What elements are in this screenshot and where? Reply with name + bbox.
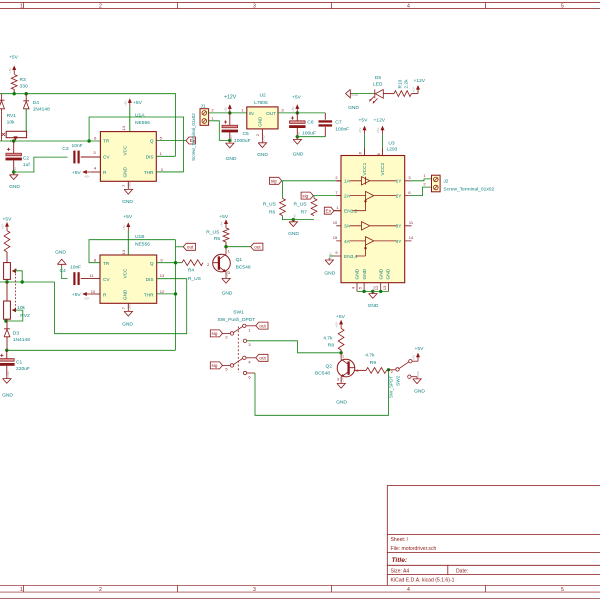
junction D3 C1 [5,349,8,352]
wire THR stub U1B [157,293,176,295]
svg-text:1000uF: 1000uF [234,138,251,144]
svg-text:Size: A4: Size: A4 [391,569,410,575]
power +12V input [223,104,231,113]
global label out U1B out [183,243,195,250]
svg-text:14: 14 [409,235,414,240]
svg-text:R9: R9 [370,360,377,366]
wire C2 to C3 [14,157,68,172]
svg-text:SW_SPDT: SW_SPDT [389,376,394,398]
label Q1 [236,257,243,263]
wire 1Y to J2 [410,179,432,181]
resistor R10 [394,91,412,97]
junction R6 GND [292,218,295,221]
svg-text:5: 5 [358,286,363,289]
label Screw_Terminal_01x02 J2 [443,186,494,192]
svg-text:+5V: +5V [291,106,295,111]
svg-text:R_US: R_US [294,202,308,208]
wire RV2 to D3 [6,319,8,328]
label C7 [335,120,342,126]
wire C1 bottom lead [6,366,8,377]
svg-text:GND: GND [414,388,425,394]
svg-text:3: 3 [281,108,284,113]
wire THR stub U1A [156,171,183,173]
svg-text:C5: C5 [243,131,250,137]
svg-text:C1: C1 [16,359,23,365]
svg-text:Q1: Q1 [236,257,243,263]
power +5V U1B R pin [82,292,91,300]
svg-text:GND: GND [416,370,420,378]
screw terminal J2 [432,175,441,192]
label Screw_Terminal_01x02 J1 [191,113,196,161]
svg-text:15: 15 [333,235,338,240]
title block text Date [456,569,468,575]
svg-text:330: 330 [20,83,28,89]
svg-text:10nF: 10nF [72,143,83,149]
svg-text:2: 2 [211,108,214,113]
ground label Q2 [336,399,347,405]
svg-text:2: 2 [255,133,260,136]
wire U1A feedback loop [89,117,184,172]
capacitor C7 [319,120,333,126]
ground label U1A [122,199,133,205]
wire U1B GND lead [127,303,129,309]
label 2.2k [404,79,410,89]
wire U1B TR loop [89,240,176,263]
svg-text:C2: C2 [23,155,30,161]
svg-text:GND: GND [297,131,301,139]
label Q2 [326,364,333,370]
svg-text:D5: D5 [375,75,382,81]
label BC548 Q2 [315,371,330,377]
junction RV1 wiper [12,139,15,142]
svg-text:THR: THR [144,293,154,298]
svg-text:5: 5 [225,367,228,372]
svg-text:Screw_Terminal_01x02: Screw_Terminal_01x02 [443,186,494,192]
svg-text:+5V: +5V [376,128,380,133]
wire sig to 1A [282,180,337,182]
global label sig R7 sig [301,192,313,199]
junction U3 gnd b [371,290,374,293]
ground label R6 R7 [288,231,299,237]
global label out Q1 out [251,243,263,250]
SW1 pin6 lead [247,372,255,374]
resistor R4 [182,260,203,266]
wire C2 top lead [13,141,15,154]
wire R5 bottom lead [225,242,227,247]
label RV1 [7,113,17,119]
label +5V R5 [219,214,229,220]
capacitor C4 [73,272,79,285]
svg-text:R_US: R_US [188,276,202,282]
wire U1A VCC [129,107,131,132]
label +5V R pin U1B [72,292,82,298]
svg-text:3: 3 [248,342,251,347]
resistor R9 [366,368,387,374]
svg-text:out: out [187,245,194,250]
label C3 [62,146,69,152]
label D5 [375,75,382,81]
label 1N4148 D4 [33,107,50,113]
svg-text:out: out [259,323,266,328]
svg-text:+12V: +12V [224,94,237,100]
power +5V U1B VCC [122,222,130,231]
svg-text:+5V: +5V [84,174,89,178]
diode D4 [23,101,29,109]
wire to R7 [313,196,315,199]
svg-text:VCC: VCC [123,268,128,279]
label C4 [60,268,67,274]
wire R3 lead [13,90,15,94]
svg-text:+5V: +5V [133,100,143,106]
junction R3/rail [13,92,16,95]
resistor R5 [223,228,229,242]
ground C2 [10,166,18,179]
svg-text:R10: R10 [398,79,404,88]
svg-text:GND: GND [6,370,10,378]
svg-text:+5V: +5V [358,128,362,133]
svg-text:+5V: +5V [223,106,227,111]
global label En U3 En [324,207,334,214]
svg-text:NE556: NE556 [135,242,150,248]
wire top rail to U1A DIS [0,94,176,157]
svg-text:SW_Push_DPDT: SW_Push_DPDT [218,317,256,323]
svg-text:+5V: +5V [122,225,126,230]
power +5V U1A VCC [123,98,131,107]
svg-text:1: 1 [423,173,426,178]
wire R pin stub U1A [91,171,101,173]
svg-text:+12V: +12V [414,78,426,84]
svg-text:+12V: +12V [374,118,386,124]
global label out SW1b out [256,354,268,361]
svg-text:4: 4 [248,359,251,364]
svg-text:VCC: VCC [123,145,128,156]
label 1N4148 D3 [13,337,30,343]
svg-text:GND: GND [372,285,376,293]
wire to R6 [282,181,284,199]
label 10k RV2 [17,305,25,311]
diode D3 [4,329,10,337]
label +5V R8 [336,314,346,320]
label R_US R5 [206,230,220,236]
U3 VCC pin names [362,162,386,175]
svg-text:5: 5 [561,4,564,10]
U3 GND pin names [355,268,392,279]
svg-text:RV1: RV1 [7,113,17,119]
title block text Title [392,557,408,564]
wire C4 to CV U1B [81,278,100,280]
IC U2 L7805 [247,107,278,129]
svg-text:R8: R8 [328,343,335,349]
junction Q net [174,261,177,264]
svg-text:GND: GND [222,291,233,297]
U3 pin names right [396,179,403,245]
stub VCC2 [382,148,384,156]
svg-text:1: 1 [336,205,339,210]
junction C5 GND [228,139,231,142]
junction RV2 wiper [4,319,7,322]
svg-text:2: 2 [225,335,228,340]
svg-text:RV2: RV2 [20,313,30,319]
label NE556 U1B [135,242,150,248]
svg-text:sig: sig [271,179,277,184]
switch SW2 SPDT [389,360,419,379]
stub VCC1 [364,148,366,156]
label +5V left chain [3,217,13,223]
svg-text:NE556: NE556 [135,120,150,126]
svg-text:4: 4 [407,587,410,593]
wire U1A GND lead [127,181,129,187]
wire left rail [0,281,55,283]
wire bottom net to C1 D3 [7,349,176,351]
svg-text:GND: GND [362,268,368,279]
svg-text:C6: C6 [307,120,314,126]
svg-text:+5V: +5V [84,296,89,300]
junction U3 gnd c [379,290,382,293]
svg-text:LED: LED [373,82,383,88]
label R_US R4 [188,276,202,282]
label 1000uF [234,138,251,144]
svg-text:TR: TR [103,261,110,266]
junction +5V out [296,111,299,114]
wire Q to R4 [157,262,182,264]
power +5V U3 VCC1 [358,126,366,135]
svg-text:GND: GND [55,249,66,255]
svg-text:R6: R6 [269,210,276,216]
svg-text:R_US: R_US [206,230,220,236]
svg-text:DIS: DIS [146,155,154,160]
title block text File [391,546,437,552]
svg-text:2: 2 [423,181,426,186]
svg-text:VCC2: VCC2 [380,162,386,175]
label BC548 Q1 [236,264,251,270]
U2 pin names [249,111,276,127]
label +5V U3 [359,118,369,124]
U3 pin names left [344,179,358,260]
svg-text:+5V: +5V [123,100,127,105]
svg-text:+5V: +5V [292,95,302,101]
wire C2 bottom lead [13,160,15,172]
wire 2Y to J2 [410,187,432,196]
diode D2 partial at left edge [0,94,5,141]
label R7 [301,210,308,216]
svg-text:C4: C4 [60,268,67,274]
svg-text:GND: GND [226,156,237,162]
wire GND to LED [353,93,375,95]
label +5V output [292,95,302,101]
ground label LED [348,105,359,111]
svg-text:1A: 1A [344,179,351,185]
resistor R8 [338,328,344,350]
svg-text:7: 7 [121,184,126,187]
switch SW1 contact 6 [243,371,246,374]
resistor left chain [4,231,10,252]
label R4 [188,268,195,274]
title block frame [387,485,600,585]
pin mark RV1 left [2,133,6,136]
wire RV1 wiper rail to TR [0,140,100,142]
capacitor C2 [6,153,22,160]
svg-text:GND: GND [378,268,384,279]
screw terminal J1 [200,109,209,126]
svg-text:GND: GND [348,105,359,111]
svg-text:1: 1 [342,354,345,359]
svg-text:BC548: BC548 [236,264,251,270]
svg-text:+5V: +5V [412,355,416,360]
U3 buffers [350,177,397,256]
junction R8 Q2 [339,351,342,354]
svg-text:R5: R5 [214,236,221,242]
label R_US R7 [294,202,308,208]
svg-text:L293: L293 [387,146,398,152]
label U1B [135,234,145,240]
svg-text:GND: GND [128,303,132,311]
svg-text:13: 13 [382,285,387,290]
wire SW1 pin6 to SW2 [255,370,389,416]
power +5V output [291,104,299,113]
svg-text:7: 7 [335,190,338,195]
svg-text:14: 14 [121,125,126,130]
ground LED [346,89,359,97]
capacitor C5 [222,125,238,132]
ground SW2 [413,370,421,383]
svg-text:GND: GND [122,321,133,327]
label R6 [269,210,276,216]
svg-text:GND: GND [386,268,392,279]
U3 left pin stubs [334,181,341,256]
ground label C6 C7 [293,152,304,158]
svg-text:EN3,4: EN3,4 [344,254,358,260]
svg-text:16: 16 [358,151,363,156]
label +12V LED [414,78,426,84]
svg-text:11: 11 [409,220,414,225]
svg-text:4: 4 [94,166,97,171]
wire pot wiper [15,271,23,282]
label +5V U1A [133,100,143,106]
transistor Q1 BC548 [213,247,231,277]
label +12V input [224,94,237,100]
svg-text:14: 14 [121,249,126,254]
svg-text:Q2: Q2 [326,364,333,370]
power +5V R3 [8,65,16,74]
label D4 [33,100,40,106]
resistor R7 [311,198,317,215]
wire C6 top lead [296,113,298,121]
svg-text:5: 5 [561,587,564,593]
svg-text:2: 2 [207,262,210,267]
potentiometer RV1 [6,131,26,139]
svg-text:5: 5 [160,136,163,141]
label 100uF C6 [302,131,316,137]
svg-text:sig: sig [212,331,218,336]
label L293 [387,146,398,152]
svg-text:GND: GND [328,251,332,259]
label NE556 U1A [135,120,150,126]
svg-text:GND: GND [293,213,297,221]
svg-text:D3: D3 [13,330,20,336]
label C6 [307,120,314,126]
svg-text:+5V: +5V [415,346,425,352]
U1A pin names [103,139,154,178]
junction pot bottom [5,280,8,283]
capacitor C1 [0,359,15,366]
global label sig SW1b sig [210,362,222,369]
junction +12V C5 [228,111,231,114]
label R_US R6 [263,202,277,208]
svg-text:Q: Q [150,139,154,144]
svg-text:GND: GND [258,116,263,127]
label U3 [388,140,395,146]
capacitor C6 [289,121,305,128]
wire sig to 2A [313,195,336,197]
svg-text:+5V: +5V [412,87,416,92]
label U1A [135,112,145,118]
ground C5 [226,135,234,148]
wire DIS loop to rail [55,279,187,334]
svg-text:4.7k: 4.7k [365,353,375,359]
svg-text:3: 3 [253,587,256,593]
svg-text:C3: C3 [62,146,69,152]
label 330 [20,83,28,89]
junction R5 collector [224,245,227,248]
svg-text:GND: GND [128,181,132,189]
wire D4 to RV1 [25,109,27,132]
svg-text:U3: U3 [388,140,395,146]
svg-text:+5V: +5V [220,222,224,227]
switch SW1 pole 1 [223,324,256,335]
switch SW1 gang dashes [237,327,239,373]
svg-text:10: 10 [91,289,96,294]
label C2 [23,155,30,161]
junction D4/rail [25,92,28,95]
potentiometer upper [4,263,16,280]
label +5V R pin U1A [72,170,82,176]
svg-text:J2: J2 [443,178,448,184]
ground label Q1 [222,291,233,297]
ground U1A [124,181,132,194]
label +5V SW2 [415,346,425,352]
ground U1B [124,303,132,316]
svg-text:1N4148: 1N4148 [13,337,30,343]
ground label C4 [55,249,66,255]
svg-text:2Y: 2Y [396,194,403,200]
sheet border bottom [0,585,600,598]
junction C6 GND [296,135,299,138]
ground label SW2 [414,388,425,394]
svg-text:GND: GND [257,152,268,158]
svg-text:J1: J1 [201,104,206,110]
svg-text:1: 1 [211,115,214,120]
svg-text:GND: GND [123,166,128,177]
svg-text:6: 6 [408,190,411,195]
svg-text:+5V: +5V [336,314,346,320]
svg-text:1: 1 [248,327,251,332]
svg-text:2: 2 [335,175,338,180]
IC U3 L293 [341,156,405,283]
label 4.7k R9 [365,353,375,359]
svg-text:GND: GND [336,399,347,405]
svg-text:THR: THR [144,170,154,175]
label LED [373,82,383,88]
svg-text:1: 1 [228,249,231,254]
U1B pin names [103,261,154,300]
ground Q1 [222,270,230,283]
ground C1 [3,370,11,383]
global label sig R6 sig [270,177,282,184]
wire D4 top lead [25,94,27,101]
ground EN3,4 [325,251,333,264]
pin stub 2A [336,195,341,197]
svg-text:11: 11 [89,273,94,278]
